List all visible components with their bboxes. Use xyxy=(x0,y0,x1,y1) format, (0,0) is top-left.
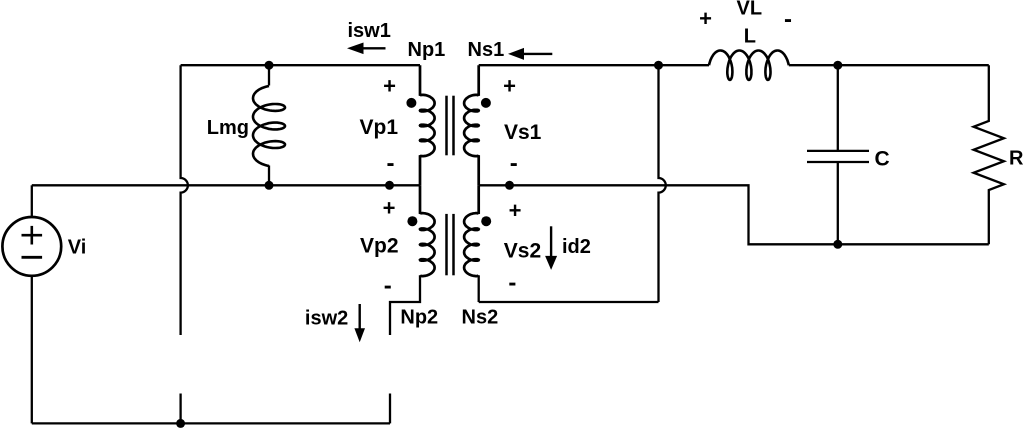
transformer winding Np1 xyxy=(420,65,435,185)
svg-text:R: R xyxy=(1009,148,1024,170)
svg-text:L: L xyxy=(744,25,756,47)
junction dot C bottom xyxy=(833,240,842,249)
svg-text:isw1: isw1 xyxy=(348,20,391,42)
svg-text:C: C xyxy=(875,148,890,171)
transformer winding Ns1 xyxy=(464,65,479,185)
svg-text:Vi: Vi xyxy=(68,237,87,259)
svg-text:-: - xyxy=(387,150,395,177)
svg-text:+: + xyxy=(383,73,396,98)
wire Lmg top stub xyxy=(268,65,270,85)
wire top rail output xyxy=(838,64,989,66)
transformer core lower xyxy=(447,214,454,275)
transformer winding Np2 xyxy=(420,185,435,276)
svg-text:Ns1: Ns1 xyxy=(468,39,505,61)
junction dot secondary top xyxy=(654,61,663,70)
wire Lmg bottom stub xyxy=(268,166,270,186)
svg-text:-: - xyxy=(384,273,392,300)
wire bottom rail xyxy=(32,422,390,424)
svg-text:+: + xyxy=(699,6,712,31)
svg-text:+: + xyxy=(509,198,522,223)
svg-text:Np2: Np2 xyxy=(400,307,438,329)
junction dot primary mid xyxy=(385,181,394,190)
svg-text:Vs2: Vs2 xyxy=(504,240,541,263)
switch SW2 lower stub xyxy=(389,394,391,424)
capacitor C xyxy=(807,65,869,244)
wire top rail secondary xyxy=(479,64,709,66)
junction dot bottom rail xyxy=(176,419,185,428)
wire mid rail primary xyxy=(32,184,420,186)
wire left vertical with hop over mid rail xyxy=(181,65,188,335)
wire Ns2 bottom to return xyxy=(479,301,659,303)
svg-text:isw2: isw2 xyxy=(305,308,348,330)
phase dot Ns2 xyxy=(481,216,491,226)
svg-text:-: - xyxy=(508,270,516,297)
voltage source Vi circle xyxy=(2,217,61,276)
svg-text:+: + xyxy=(503,73,516,98)
wire Ns2 bottom stub xyxy=(478,275,480,302)
junction dot Lmg top xyxy=(265,61,274,70)
wire Vi top stub xyxy=(31,185,33,217)
svg-text:VL: VL xyxy=(737,0,763,20)
arrow isw1 xyxy=(347,43,386,55)
resistor R xyxy=(974,65,1004,244)
arrow isw2 xyxy=(354,304,365,342)
arrow id2 xyxy=(545,226,557,270)
junction dot Lmg bottom xyxy=(265,181,274,190)
svg-text:Np1: Np1 xyxy=(408,39,446,61)
wire top rail primary xyxy=(181,64,420,66)
phase dot Ns1 xyxy=(481,98,491,108)
Vi plus sign xyxy=(22,226,43,245)
transformer core upper xyxy=(447,96,454,156)
phase dot Np1 xyxy=(406,98,416,108)
Vi minus sign xyxy=(22,256,43,259)
junction dot secondary mid xyxy=(505,181,514,190)
arrow into Ns1 xyxy=(508,48,552,60)
wire output bottom rail xyxy=(838,243,989,245)
wire L to C xyxy=(789,64,838,66)
svg-text:Vp1: Vp1 xyxy=(360,116,399,139)
wire Np2 bottom jog xyxy=(390,275,420,335)
phase dot Np2 xyxy=(407,216,417,226)
transformer winding Ns2 xyxy=(464,185,479,276)
wire secondary return vertical with hop xyxy=(659,65,666,302)
junction dot C top xyxy=(833,61,842,70)
svg-text:-: - xyxy=(510,150,518,177)
wire Vi bottom stub xyxy=(31,276,33,424)
svg-text:Lmg: Lmg xyxy=(207,117,249,139)
inductor L coil xyxy=(709,51,789,80)
wire mid rail secondary xyxy=(479,185,838,244)
svg-text:Vs1: Vs1 xyxy=(504,121,542,144)
svg-text:Vp2: Vp2 xyxy=(360,235,399,258)
svg-text:id2: id2 xyxy=(562,236,591,258)
switch SW1 lower stub xyxy=(179,394,181,424)
inductor Lmg coil xyxy=(253,86,285,166)
svg-text:-: - xyxy=(784,6,792,33)
svg-text:Ns2: Ns2 xyxy=(462,307,499,329)
svg-text:+: + xyxy=(383,196,396,221)
